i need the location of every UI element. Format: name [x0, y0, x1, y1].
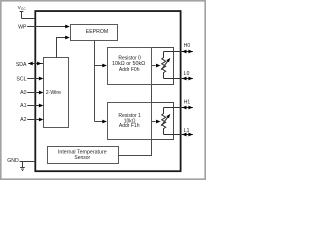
- svg-text:A2: A2: [20, 117, 26, 123]
- wire WP to EEPROM with arrowhead: [27, 25, 70, 29]
- pin A1 label: [20, 103, 26, 109]
- ground symbol: [20, 162, 25, 171]
- wire L0 pin with bidirectional arrows: [164, 77, 193, 81]
- wire A2 with arrowhead: [27, 118, 43, 122]
- resistor control block R1: [108, 103, 152, 140]
- pin SCL label: [16, 76, 26, 82]
- pin L0 label: [184, 71, 190, 77]
- pin WP label: [18, 24, 27, 30]
- wire temperature sensor to L1 net: [119, 140, 152, 156]
- wire VCC to chip: [22, 18, 36, 20]
- wire L1 pin with bidirectional arrows: [164, 133, 193, 137]
- wire SDA bidirectional arrows: [28, 62, 43, 66]
- potentiometer P1: [161, 103, 173, 140]
- pin A2 label: [20, 117, 26, 123]
- svg-text:L1: L1: [184, 128, 190, 134]
- svg-text:H1: H1: [184, 100, 191, 106]
- pin H0 label: [184, 43, 191, 49]
- wire A0 with arrowhead: [27, 91, 43, 95]
- wire 2-Wire to EEPROM with arrowhead: [57, 36, 70, 58]
- internal temperature sensor block U4: [48, 147, 119, 164]
- pin A0 label: [20, 90, 26, 96]
- node H0 net top extension: [152, 48, 174, 52]
- 2-Wire interface U3: [44, 58, 69, 128]
- wire EEPROM control bus vertical: [94, 41, 96, 122]
- svg-text:2-Wire: 2-Wire: [46, 90, 61, 96]
- svg-text:A1: A1: [20, 103, 26, 109]
- node H1 net top extension: [152, 103, 174, 108]
- wire H0 pin with bidirectional arrows: [164, 50, 193, 54]
- wire H1 pin with bidirectional arrows: [164, 106, 193, 110]
- svg-text:Sensor: Sensor: [74, 155, 90, 161]
- wire EEPROM to Resistor 1 with arrowhead: [95, 120, 107, 124]
- svg-text:A0: A0: [20, 90, 26, 96]
- svg-text:EEPROM: EEPROM: [86, 29, 108, 35]
- chip boundary U1: [35, 11, 180, 171]
- wire SCL with arrowhead: [27, 77, 43, 81]
- wire GND to chip: [20, 161, 36, 163]
- pin GND label: [7, 158, 19, 164]
- svg-text:GND: GND: [7, 158, 19, 164]
- EEPROM U2: [71, 25, 118, 41]
- svg-text:SCL: SCL: [16, 76, 26, 82]
- svg-text:L0: L0: [184, 71, 190, 77]
- wire R0 wiper control to pot with arrowhead: [152, 64, 161, 68]
- svg-text:Addr F1h: Addr F1h: [119, 123, 140, 129]
- svg-text:Addr F0h: Addr F0h: [119, 67, 140, 73]
- pin VCC label: [18, 5, 27, 11]
- svg-text:H0: H0: [184, 43, 191, 49]
- svg-text:CC: CC: [21, 7, 26, 11]
- wire vertical bus between R0 and R1: [151, 85, 153, 103]
- wire EEPROM to Resistor 0 with arrowhead: [95, 64, 107, 68]
- node L0 net bottom extension: [152, 79, 174, 85]
- potentiometer P0: [161, 48, 173, 85]
- pin SDA label: [16, 62, 27, 68]
- pin VCC power terminal symbol: [20, 12, 24, 19]
- svg-text:WP: WP: [18, 24, 27, 30]
- wire A1 with arrowhead: [27, 104, 43, 108]
- svg-text:SDA: SDA: [16, 62, 27, 68]
- wire R1 wiper control to pot with arrowhead: [152, 120, 161, 124]
- node L1 net bottom extension: [152, 135, 174, 140]
- pin L1 label: [184, 128, 190, 134]
- pin H1 label: [184, 100, 191, 106]
- resistor control block R0: [108, 48, 152, 85]
